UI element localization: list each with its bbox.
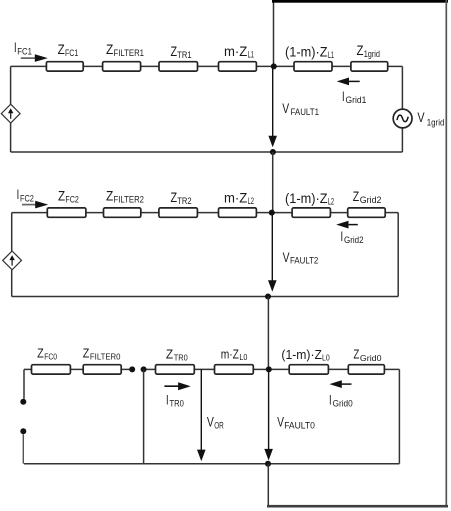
svg-text:Z: Z (357, 43, 364, 58)
svg-text:TR1: TR1 (177, 50, 191, 60)
svg-text:L2: L2 (328, 197, 334, 207)
svg-text:OR: OR (214, 420, 224, 430)
svg-text:I: I (14, 40, 17, 55)
svg-text:TR0: TR0 (170, 398, 184, 408)
svg-text:Grid2: Grid2 (344, 235, 364, 245)
svg-text:Z: Z (58, 189, 65, 204)
svg-text:Z: Z (353, 347, 359, 362)
svg-text:I: I (329, 392, 332, 407)
svg-text:V: V (277, 414, 284, 429)
svg-text:L2: L2 (248, 196, 254, 206)
svg-text:m·Z: m·Z (221, 347, 239, 362)
svg-text:FC1: FC1 (65, 48, 78, 58)
svg-text:FC1: FC1 (17, 47, 32, 57)
svg-text:FILTER2: FILTER2 (114, 195, 145, 205)
svg-text:Z: Z (58, 42, 65, 57)
svg-text:Z: Z (83, 345, 90, 360)
svg-text:Z: Z (171, 190, 178, 205)
svg-text:I: I (17, 187, 20, 202)
svg-text:FAULT2: FAULT2 (290, 256, 318, 266)
svg-text:(1-m)·Z: (1-m)·Z (281, 347, 322, 362)
svg-text:Z: Z (106, 42, 113, 57)
svg-text:V: V (282, 101, 289, 116)
svg-text:Z: Z (171, 44, 178, 59)
svg-text:FAULT0: FAULT0 (284, 420, 315, 430)
svg-text:L0: L0 (322, 353, 330, 363)
svg-text:FC2: FC2 (20, 193, 34, 203)
svg-text:L1: L1 (328, 50, 334, 60)
svg-text:L1: L1 (248, 50, 254, 60)
svg-text:1grid: 1grid (364, 49, 380, 59)
svg-text:V: V (283, 250, 290, 265)
svg-text:FILTER1: FILTER1 (114, 48, 145, 58)
svg-text:FC0: FC0 (44, 351, 57, 361)
svg-text:Z: Z (166, 347, 173, 362)
svg-text:TR0: TR0 (174, 353, 188, 363)
svg-text:1grid: 1grid (427, 117, 445, 127)
svg-text:FAULT1: FAULT1 (291, 107, 320, 117)
svg-text:L0: L0 (239, 352, 247, 362)
svg-text:Grid2: Grid2 (360, 195, 382, 205)
svg-text:Z: Z (353, 189, 359, 204)
svg-text:Z: Z (106, 189, 113, 204)
svg-text:Z: Z (37, 345, 44, 360)
svg-text:(1-m)·Z: (1-m)·Z (285, 191, 328, 206)
svg-text:Grid1: Grid1 (346, 95, 367, 105)
svg-text:(1-m)·Z: (1-m)·Z (285, 44, 328, 59)
svg-text:m·Z: m·Z (224, 44, 247, 59)
svg-text:TR2: TR2 (177, 196, 191, 206)
svg-text:FC2: FC2 (65, 195, 79, 205)
svg-text:I: I (341, 229, 344, 244)
svg-text:V: V (417, 110, 424, 125)
svg-text:m·Z: m·Z (224, 190, 247, 205)
svg-text:I: I (166, 392, 169, 407)
svg-text:V: V (207, 414, 214, 429)
svg-text:Grid0: Grid0 (333, 398, 353, 408)
svg-text:I: I (342, 89, 345, 104)
svg-text:FILTER0: FILTER0 (90, 351, 121, 361)
svg-text:Grid0: Grid0 (360, 353, 382, 363)
